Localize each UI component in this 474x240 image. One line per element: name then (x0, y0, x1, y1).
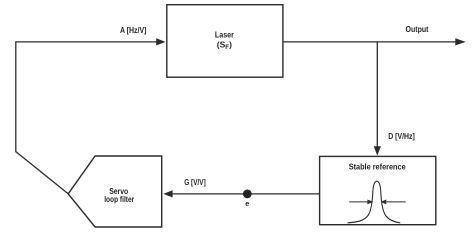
resonance curve inside stable reference (348, 181, 401, 223)
block Stable reference (320, 156, 436, 224)
wire: feedback diagonal from servo point (16, 152, 68, 194)
linewidth arrow left (349, 200, 373, 205)
linewidth arrow right (380, 200, 405, 205)
svg-text:loop filter: loop filter (104, 194, 135, 204)
node e (243, 190, 252, 199)
svg-text:A [Hz/V]: A [Hz/V] (120, 25, 147, 35)
block Servo loop filter (68, 156, 162, 227)
svg-text:D [V/Hz]: D [V/Hz] (388, 131, 415, 141)
wire: laser output (283, 41, 457, 43)
arrowhead into Servo loop filter (163, 190, 172, 197)
svg-text:Laser: Laser (215, 30, 235, 40)
wire: error signal from stable reference to servo (172, 193, 320, 195)
block Laser (SF) (167, 5, 283, 78)
svg-text:Stable reference: Stable reference (349, 161, 406, 171)
svg-text:Output: Output (406, 24, 429, 34)
arrowhead into Stable reference (374, 146, 381, 155)
arrowhead Output (455, 38, 465, 45)
svg-text:e: e (245, 199, 249, 208)
wire: feedback vertical riser (15, 41, 17, 152)
svg-text:G [V/V]: G [V/V] (184, 177, 206, 187)
svg-text:(SF): (SF) (217, 39, 232, 51)
wire A: feedback to laser input (16, 41, 158, 43)
wire: branch down to stable reference (376, 41, 378, 147)
arrowhead into Laser (156, 38, 165, 45)
